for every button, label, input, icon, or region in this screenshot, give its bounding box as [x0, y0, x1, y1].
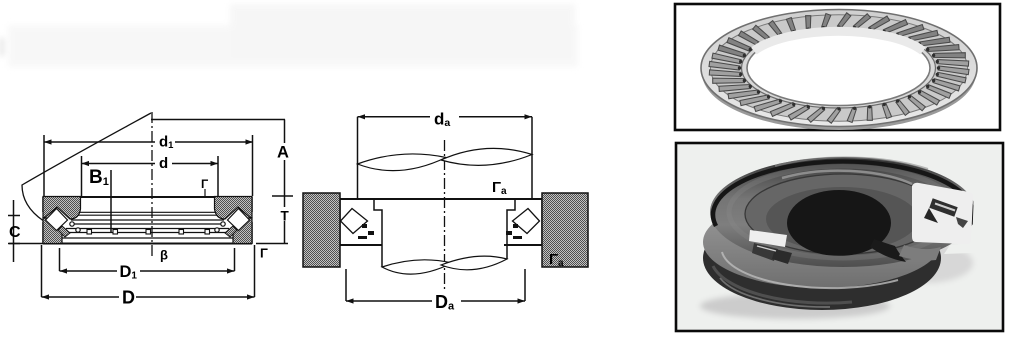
centerline middle	[444, 140, 446, 292]
housing blocks	[303, 193, 588, 267]
housing washer cut face bottom-left	[43, 218, 62, 244]
cutaway gap shadow	[870, 239, 906, 262]
needle cage bore	[747, 31, 930, 106]
svg-text:C: C	[9, 224, 21, 241]
dim line d1	[44, 141, 155, 143]
lower-left cut face	[749, 230, 787, 247]
dim line Da	[346, 300, 432, 302]
top extension to A	[151, 119, 285, 121]
hatched washers left drawing	[43, 197, 252, 244]
faint scan smudge top-left	[0, 4, 578, 67]
shaft break curves top	[358, 154, 447, 171]
cage section right	[225, 226, 237, 237]
bearing outline middle	[340, 198, 542, 200]
housing washer cut face bottom-right	[233, 218, 252, 244]
D dimension	[41, 245, 43, 297]
roller middle-left	[341, 209, 368, 234]
needle cage inner lip	[742, 28, 936, 108]
cage squares	[87, 230, 210, 235]
svg-text:Γ: Γ	[201, 177, 209, 191]
bearing top/bottom	[43, 196, 252, 198]
shaft washer cut face top-right	[215, 197, 253, 220]
D1 dimension	[59, 248, 61, 271]
svg-text:D: D	[122, 288, 135, 308]
housing block left	[303, 193, 340, 267]
photo shadow left	[700, 293, 890, 319]
roller cross-section left	[46, 209, 68, 231]
svg-text:β: β	[160, 248, 168, 263]
angle leader curve	[22, 113, 151, 221]
bore step right	[507, 199, 515, 259]
extension d1 left/right	[43, 135, 45, 196]
background cut right of white block	[944, 191, 996, 254]
svg-text:A: A	[277, 144, 289, 162]
svg-text:d: d	[159, 155, 168, 172]
dim line d	[82, 163, 156, 165]
A/T vertical	[284, 120, 286, 144]
cage section left	[58, 226, 70, 237]
highlight arc outer rim	[775, 157, 928, 169]
shaft washer cut face top-left	[43, 197, 81, 220]
labels left drawing	[9, 134, 290, 308]
labels middle drawing	[434, 110, 564, 313]
centerline left	[151, 112, 153, 258]
dim Da extensions	[345, 269, 347, 301]
bearing bore dark	[787, 190, 891, 256]
shaft washer inner step	[745, 174, 941, 254]
roller cross-section right	[228, 209, 250, 231]
tapered roller right cut	[929, 198, 957, 216]
B1 pointer	[110, 170, 112, 232]
rollers lower-left	[752, 243, 778, 261]
highlight ridge inner step	[782, 171, 912, 184]
dim line da	[358, 116, 431, 118]
housing washer side	[703, 206, 941, 310]
photo shadow right	[877, 243, 973, 283]
r tick	[204, 189, 206, 196]
needle cage ring thickness	[702, 16, 976, 130]
C dimension	[13, 200, 15, 262]
bottom extension right	[256, 243, 288, 245]
bright inner rim highlight far side	[754, 31, 923, 51]
photo frame top	[675, 4, 1000, 130]
housing block right	[542, 193, 588, 267]
raceway lines	[60, 212, 235, 238]
needle roller band	[711, 15, 968, 121]
shaft washer ring	[710, 157, 976, 267]
photo frame bottom	[676, 143, 1003, 331]
housing washer face	[703, 196, 941, 288]
svg-text:Γ: Γ	[260, 246, 268, 261]
shaft break curves bottom	[382, 260, 452, 274]
roller middle-right	[513, 209, 540, 234]
needle cage outer rim	[701, 10, 977, 127]
subtle light band on top ring face	[729, 166, 957, 258]
right cut faces (white block)	[912, 183, 973, 244]
svg-text:T: T	[281, 209, 290, 224]
rollers middle drawing	[341, 209, 540, 240]
shaft outline	[357, 117, 359, 199]
bore step left	[374, 199, 382, 267]
